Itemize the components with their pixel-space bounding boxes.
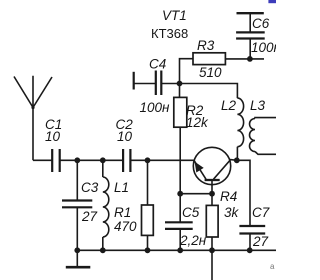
capacitor C2 — [123, 149, 130, 172]
svg-text:100н: 100н — [251, 40, 276, 55]
node gnd-R1 — [145, 247, 151, 253]
svg-text:C5: C5 — [182, 205, 200, 220]
wire R4 bottom lead — [211, 237, 213, 250]
svg-text:27: 27 — [81, 209, 98, 224]
node R3/C6 — [247, 56, 253, 62]
blue crop artifact top right — [268, 0, 276, 3]
node rail-L1 — [100, 157, 106, 163]
node collector/L2/C7 — [234, 157, 240, 163]
node gnd-R4 — [209, 247, 215, 253]
svg-text:2,2н: 2,2н — [179, 233, 207, 248]
svg-text:510: 510 — [199, 65, 222, 80]
node VT1/R4 — [209, 191, 215, 197]
wire node R2 top lead — [179, 84, 181, 98]
svg-text:3k: 3k — [224, 205, 240, 220]
node rail-C3 — [74, 157, 80, 163]
svg-text:R4: R4 — [220, 189, 237, 204]
wire L1 bottom lead — [102, 237, 104, 250]
wire node to L2 top — [180, 84, 238, 99]
svg-text:L1: L1 — [114, 180, 129, 195]
svg-text:470: 470 — [114, 219, 137, 234]
svg-text:R1: R1 — [114, 205, 131, 220]
wire stub below rail — [211, 250, 213, 280]
resistor R4 — [206, 205, 218, 237]
node rail-R1 — [145, 157, 151, 163]
inductor L1 — [103, 177, 109, 237]
ground — [66, 250, 91, 267]
svg-text:10: 10 — [45, 129, 61, 144]
svg-text:КТ368: КТ368 — [151, 26, 188, 41]
wire L1 top lead — [102, 160, 104, 177]
node gnd-C5 — [177, 247, 183, 253]
svg-text:VT1: VT1 — [162, 8, 187, 23]
wire C3 bottom lead — [76, 207, 78, 250]
svg-text:100н: 100н — [140, 100, 171, 115]
svg-text:L2: L2 — [221, 98, 237, 113]
wire R4 top lead — [211, 194, 213, 206]
wire R3 right lead — [225, 58, 264, 60]
svg-text:27: 27 — [252, 234, 269, 249]
capacitor C6 — [236, 13, 265, 59]
wire C3 top lead — [76, 160, 78, 200]
wire R1 bottom lead — [147, 235, 149, 250]
wire L2 bottom lead — [236, 147, 238, 161]
svg-text:C6: C6 — [252, 16, 270, 31]
wire R2 bottom lead — [179, 127, 181, 194]
svg-text:12k: 12k — [186, 115, 209, 130]
capacitor C5 — [165, 222, 193, 250]
node gnd-C3 — [74, 247, 80, 253]
node gnd-L1 — [100, 247, 106, 253]
wire node up to R3 left lead — [180, 59, 194, 84]
antenna — [14, 76, 52, 161]
node R2/C5 — [177, 191, 183, 197]
wire base/emitter bottom rail (R2-C5 to R4) — [180, 193, 212, 195]
svg-text:C3: C3 — [81, 180, 99, 195]
wire R1 top lead — [147, 160, 149, 205]
svg-text:R3: R3 — [197, 38, 215, 53]
capacitor C7 — [239, 226, 265, 250]
svg-text:a: a — [270, 262, 275, 271]
wire main rail left — [33, 159, 52, 161]
wire rail C2 to transistor — [130, 159, 194, 161]
capacitor C4 — [134, 71, 180, 96]
wire L3 bottom lead — [255, 152, 276, 155]
svg-text:10: 10 — [117, 129, 133, 144]
node C4/R3/R2/L2 — [177, 81, 183, 87]
wire ground rail — [77, 249, 276, 251]
svg-text:C7: C7 — [252, 205, 270, 220]
svg-text:L3: L3 — [250, 98, 266, 113]
capacitor C3 — [62, 201, 92, 208]
wire collector to C7 — [237, 160, 250, 226]
node gnd-C7 — [247, 247, 253, 253]
resistor R2 — [174, 97, 187, 127]
inductor L3 — [250, 119, 256, 152]
wire L3 top lead — [255, 117, 276, 120]
resistor R1 — [142, 205, 154, 235]
transistor VT1 — [193, 147, 237, 193]
capacitor C1 — [52, 149, 60, 172]
wire rail C1 to C2 — [60, 159, 123, 161]
inductor L2 — [237, 98, 243, 147]
resistor R3 — [193, 53, 225, 65]
wire C5 top lead — [179, 194, 181, 223]
svg-text:C4: C4 — [149, 57, 166, 72]
